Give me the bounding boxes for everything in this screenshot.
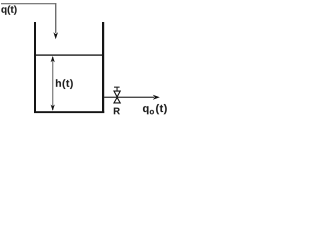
wire: inflow feed horizontal line (1, 3, 56, 4)
arrowhead: bottom of h arrow (51, 105, 55, 111)
valve R: upper triangle (114, 91, 120, 97)
label q(t) (1, 5, 16, 14)
tank left wall (34, 22, 36, 113)
arrowhead: outflow arrow (153, 95, 160, 100)
arrowhead: inflow arrow into tank (53, 32, 58, 39)
wire: inflow feed vertical drop (55, 3, 56, 33)
water level line (36, 54, 102, 55)
valve R: stem (117, 88, 118, 92)
valve R: lower triangle (114, 98, 120, 103)
tank bottom (34, 111, 104, 113)
wire: outlet pipe (104, 97, 154, 98)
label R (114, 108, 120, 115)
label h(t) (56, 79, 73, 89)
tank right wall (102, 22, 104, 113)
label qo(t) (143, 104, 167, 114)
arrowhead: top of h arrow (51, 56, 55, 62)
dimension arrow h(t): shaft (52, 57, 53, 110)
valve R: stem T-bar (114, 87, 120, 88)
